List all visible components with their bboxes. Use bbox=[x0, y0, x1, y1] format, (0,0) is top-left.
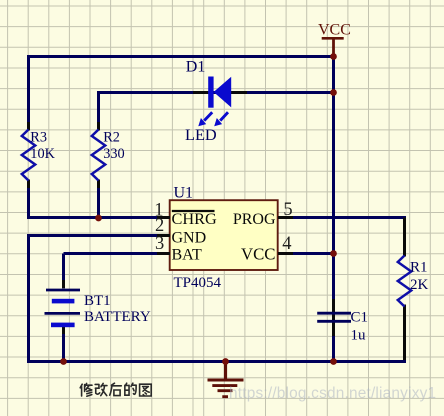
svg-text:2K: 2K bbox=[410, 277, 429, 293]
svg-text:R3: R3 bbox=[30, 130, 47, 146]
svg-text:U1: U1 bbox=[174, 185, 194, 202]
svg-text:CHRG: CHRG bbox=[172, 209, 217, 228]
svg-text:R1: R1 bbox=[410, 260, 428, 276]
svg-text:VCC: VCC bbox=[318, 21, 351, 38]
svg-text:TP4054: TP4054 bbox=[174, 275, 222, 291]
svg-text:https://blog.csdn.net/lianyixy: https://blog.csdn.net/lianyixy1 bbox=[229, 385, 436, 402]
svg-text:4: 4 bbox=[282, 234, 291, 254]
svg-text:GND: GND bbox=[172, 229, 207, 246]
svg-text:LED: LED bbox=[185, 125, 217, 144]
svg-text:D1: D1 bbox=[186, 59, 206, 76]
svg-text:VCC: VCC bbox=[241, 244, 276, 263]
svg-text:330: 330 bbox=[103, 146, 124, 162]
svg-text:1u: 1u bbox=[351, 328, 367, 344]
svg-text:BT1: BT1 bbox=[84, 293, 111, 309]
svg-text:R2: R2 bbox=[103, 130, 120, 146]
svg-text:BAT: BAT bbox=[172, 246, 202, 263]
svg-text:C1: C1 bbox=[351, 310, 369, 326]
svg-text:3: 3 bbox=[155, 234, 164, 254]
svg-text:BATTERY: BATTERY bbox=[84, 309, 151, 325]
svg-text:5: 5 bbox=[283, 200, 292, 220]
svg-text:10K: 10K bbox=[30, 146, 55, 162]
svg-text:PROG: PROG bbox=[233, 211, 276, 228]
